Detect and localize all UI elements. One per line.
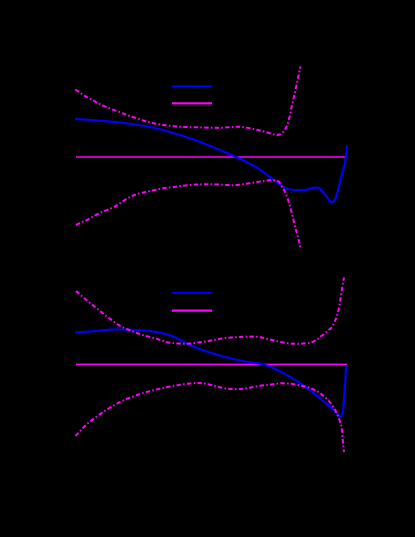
top subplot: legend magenta line sample [172, 102, 212, 104]
bottom subplot: lower magenta dash-dot curve [76, 383, 345, 452]
bottom subplot: upper magenta dash-dot curve [76, 278, 344, 344]
top subplot: legend blue line sample [172, 85, 212, 87]
top subplot: zero reference hline [76, 156, 347, 158]
bottom subplot: legend magenta line sample [172, 310, 212, 312]
bottom subplot: legend blue line sample [172, 292, 212, 294]
top subplot: lower magenta dash-dot curve [76, 180, 301, 248]
top subplot: upper magenta dash-dot curve [75, 67, 300, 136]
top subplot: blue solid curve [76, 119, 347, 202]
bottom subplot: zero reference hline [76, 363, 347, 365]
bottom subplot: blue solid curve [76, 329, 346, 417]
